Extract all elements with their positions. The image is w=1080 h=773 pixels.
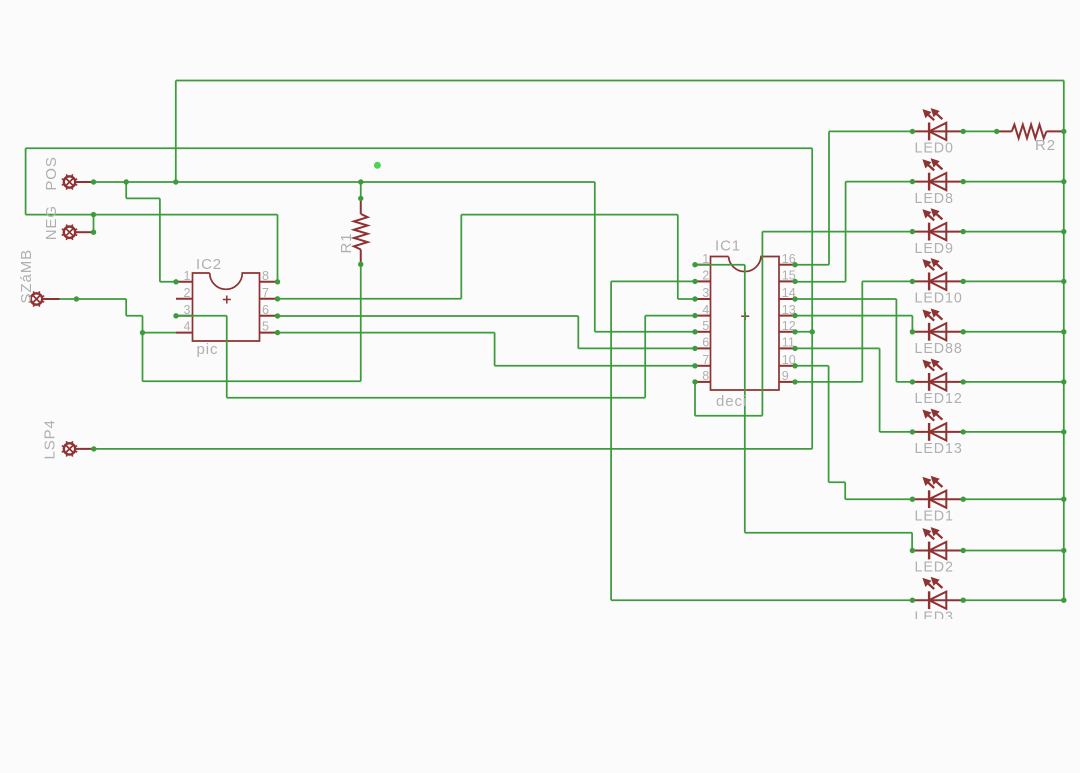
wire wire LED3 cathode to bus: [963, 599, 1064, 601]
svg-text:8: 8: [702, 369, 709, 383]
node LED8 anode: [910, 179, 915, 184]
wire net SZaMB jog: [126, 315, 142, 317]
wire wire IC1p10 drop: [828, 366, 830, 482]
wire wire LED10 cathode to bus: [963, 280, 1064, 282]
plus mark IC1: [741, 312, 749, 320]
wire wire drop to IC2 pin1: [159, 198, 161, 281]
LED LED3: [912, 578, 963, 610]
node LED2 cathode: [961, 548, 966, 553]
svg-text:7: 7: [262, 286, 269, 300]
svg-text:9: 9: [782, 369, 789, 383]
svg-text:LED13: LED13: [915, 441, 963, 457]
wire wire IC1p15 riser to LED8: [845, 182, 847, 282]
node LED3 anode: [910, 598, 915, 603]
svg-text:12: 12: [782, 319, 796, 333]
wire wire IC2 pin3 drop: [226, 316, 228, 398]
connector NEG pinhead: [62, 225, 91, 240]
wire wire from IC1 pin1: [695, 264, 745, 266]
wire wire LED13 cathode to bus: [963, 431, 1064, 433]
junction bus LED2: [1061, 548, 1066, 553]
pin stub IC1 right 3: [779, 298, 795, 300]
pin stub IC2 right 2: [260, 298, 278, 300]
connector SZaMB pinhead: [29, 291, 60, 306]
wire wire to IC2 pin4: [143, 332, 177, 334]
wire wire jog LED1 b: [844, 482, 846, 499]
wire wire IC1p13 drop to LED88: [911, 316, 913, 332]
node NEG at pinhead link: [91, 212, 96, 217]
wire net IC2p3-IC1p4 lower: [227, 397, 645, 399]
wire wire POS drop to IC1 pin5: [594, 182, 596, 332]
node LED9 anode: [910, 229, 915, 234]
LED LED0: [912, 109, 963, 141]
node IC2 pin 7: [275, 296, 280, 301]
wire net NEG main: [26, 214, 278, 216]
wire wire from IC1 pin14: [795, 298, 896, 300]
svg-text:1: 1: [183, 269, 190, 283]
junction bus LED9: [1061, 229, 1066, 234]
connector LSP4 pinhead: [62, 441, 92, 456]
pin stub IC1 left 5: [695, 331, 711, 333]
wire wire to IC1 pin5: [595, 331, 695, 333]
svg-text:3: 3: [183, 303, 190, 317]
resistor R1: [354, 198, 368, 264]
node IC2 pin 8: [275, 279, 280, 284]
node IC1 pin 16: [792, 262, 797, 267]
op-amp body IC1: [711, 257, 780, 391]
node LED10 cathode: [961, 279, 966, 284]
pin stub IC1 left 8: [695, 381, 711, 383]
node POS at R1: [358, 179, 363, 184]
wire wire NEG to IC2 pin8: [277, 215, 279, 282]
wire wire to LED9 anode: [762, 231, 912, 233]
LED LED13: [912, 409, 963, 441]
wire wire to IC1 pin6: [578, 347, 695, 349]
wire wire POS to R1 top: [360, 182, 362, 198]
pin stub IC1 right 7: [779, 365, 795, 367]
svg-text:LSP4: LSP4: [42, 419, 59, 459]
wire wire IC1p1 drop to LED2: [744, 265, 746, 533]
wire net POS jog to IC2 pin1: [126, 197, 160, 199]
wire wire jog LED1 a: [829, 481, 846, 483]
LED LED88: [912, 309, 963, 341]
junction bus LED13: [1061, 429, 1066, 434]
pin stub IC2 left 1: [176, 281, 193, 283]
svg-text:1: 1: [702, 252, 709, 266]
wire net POS main: [94, 181, 595, 183]
pin stub IC1 left 2: [695, 280, 711, 282]
wire wire SZaMB drop c: [142, 333, 144, 382]
wire wire SZaMB drop a: [125, 299, 127, 316]
pin stub IC1 right 6: [779, 347, 795, 349]
node NEG pinhead: [91, 230, 96, 235]
node LED13 anode: [910, 429, 915, 434]
junction bus LED8: [1061, 179, 1066, 184]
svg-text:8: 8: [262, 269, 269, 283]
node IC1 pin 5: [692, 329, 697, 334]
svg-text:SZáMB: SZáMB: [18, 249, 35, 304]
node LED3 cathode: [961, 598, 966, 603]
node LED2 anode: [910, 548, 915, 553]
wire wire from IC1 pin15: [795, 281, 846, 283]
wire wire to LED13 anode: [880, 431, 913, 433]
svg-text:15: 15: [782, 269, 796, 283]
wire wire POS jog drop: [125, 182, 127, 198]
node LED9 cathode: [961, 229, 966, 234]
svg-text:LED3: LED3: [915, 609, 954, 625]
svg-text:LED10: LED10: [915, 291, 963, 307]
LED LED1: [912, 477, 963, 509]
pin stub IC1 left 3: [695, 298, 711, 300]
node LED0 anode: [910, 129, 915, 134]
node IC1 pin 15: [792, 279, 797, 284]
wire wire LED8 cathode to bus: [963, 181, 1064, 183]
pin stub IC2 right 4: [260, 332, 278, 334]
wire wire SZaMB drop b: [142, 316, 144, 333]
node R2 pin 1: [994, 129, 999, 134]
svg-text:6: 6: [702, 336, 709, 350]
wire net SZaMB from pinhead: [60, 298, 127, 300]
wire wire IC1 pin8 drop: [694, 382, 696, 416]
node POS top-rail junction: [173, 179, 178, 184]
junction bus LED10: [1061, 279, 1066, 284]
svg-text:16: 16: [782, 252, 796, 266]
node LSP4 pinhead: [91, 446, 96, 451]
wire wire from IC1 pin13: [795, 315, 912, 317]
wire wire IC1p14 drop to LED12: [895, 299, 897, 382]
node LED13 cathode: [961, 429, 966, 434]
pin stub IC2 right 1: [260, 281, 278, 283]
pin stub IC1 right 2: [779, 280, 795, 282]
wire wire from IC2 pin5: [278, 332, 495, 334]
wire wire to IC1 pin2: [611, 280, 695, 282]
svg-text:13: 13: [782, 303, 796, 317]
wire wire IC1p11 drop to LED13: [879, 348, 881, 432]
svg-text:7: 7: [702, 353, 709, 367]
node IC1 pin 7: [692, 363, 697, 368]
svg-text:6: 6: [262, 303, 269, 317]
junction bus LED3: [1061, 598, 1066, 603]
wire wire IC2p5 drop: [494, 333, 496, 366]
wire wire IC1p9 riser to LED10: [861, 281, 863, 382]
svg-text:NEG: NEG: [43, 205, 60, 240]
pin stub IC2 left 2: [176, 298, 193, 300]
svg-text:4: 4: [702, 303, 709, 317]
wire wire to IC2 pin1: [160, 281, 176, 283]
svg-text:10: 10: [782, 353, 796, 367]
pin stub IC2 left 3: [176, 315, 193, 317]
node IC1 pin 8: [692, 379, 697, 384]
svg-text:LED88: LED88: [915, 341, 963, 357]
wire wire from IC1 pin8: [695, 415, 762, 417]
pin stub IC1 right 1: [779, 264, 795, 266]
node LED88 anode: [910, 329, 915, 334]
resistor R2: [997, 125, 1064, 139]
svg-text:LED8: LED8: [915, 191, 954, 207]
wire wire LED1 cathode to bus: [963, 498, 1064, 500]
node R2 pin 2 bus junction: [1061, 129, 1066, 134]
svg-text:IC2: IC2: [196, 256, 222, 273]
wire wire to LED12 anode: [896, 381, 912, 383]
node IC1 pin 12: [792, 329, 797, 334]
wire wire from IC1 pin12: [795, 331, 812, 333]
node LED88 cathode: [961, 329, 966, 334]
wire net IC1p2 to LED3 lower: [611, 599, 912, 601]
svg-text:LED0: LED0: [915, 141, 954, 157]
node IC2 pin 3: [173, 313, 178, 318]
wire wire from IC1 pin11: [795, 347, 880, 349]
wire wire IC2p7 riser: [460, 215, 462, 299]
wire wire to IC1 pin7: [495, 365, 695, 367]
node R1 pin 1: [358, 196, 363, 201]
plus mark IC2: [223, 296, 231, 304]
node IC1 pin 9: [792, 379, 797, 384]
svg-text:3: 3: [702, 286, 709, 300]
svg-text:R1: R1: [338, 233, 355, 254]
svg-text:14: 14: [782, 286, 796, 300]
svg-text:LED1: LED1: [915, 508, 954, 524]
wire wire LED0 cathode to R2: [963, 130, 997, 132]
wire net LSP4 main: [94, 448, 812, 450]
node IC1 pin 2: [692, 279, 697, 284]
svg-text:2: 2: [702, 269, 709, 283]
wire wire NEG pinhead link: [93, 215, 95, 233]
node IC1 pin 4: [692, 313, 697, 318]
wire wire IC1p16 riser to LED0: [828, 131, 830, 264]
wire wire from IC2 pin3: [176, 315, 227, 317]
node SZaMB branch: [140, 330, 145, 335]
wire net IC2p7-IC1p3 upper: [461, 214, 678, 216]
svg-text:R2: R2: [1035, 137, 1056, 154]
svg-text:4: 4: [183, 320, 190, 334]
wire wire to LED1 anode: [845, 498, 912, 500]
junction bus LED12: [1061, 379, 1066, 384]
svg-text:2: 2: [183, 286, 190, 300]
wire wire LED88 cathode to bus: [963, 331, 1064, 333]
pin stub IC1 right 5: [779, 331, 795, 333]
node IC1 pin 3: [692, 296, 697, 301]
wire wire from IC1 pin10: [795, 365, 829, 367]
node LED10 anode: [910, 279, 915, 284]
node POS jog: [124, 179, 129, 184]
label LED3 (clipped): [915, 609, 954, 625]
node POS at pinhead: [91, 179, 96, 184]
node IC1 pin 11: [792, 346, 797, 351]
wire wire from IC1 pin9: [795, 381, 862, 383]
node LED12 cathode: [961, 379, 966, 384]
wire net IC1p1 to LED2 lower: [745, 532, 912, 534]
pin stub IC1 left 7: [695, 365, 711, 367]
wire wire R1 bottom link: [360, 264, 362, 381]
node IC1 pin 13: [792, 313, 797, 318]
wire wire IC1p4 riser: [644, 316, 646, 398]
pin stub IC1 right 4: [779, 315, 795, 317]
wire wire to IC1 pin4: [645, 315, 695, 317]
svg-text:IC1: IC1: [715, 238, 741, 255]
wire wire LED2 anode drop: [911, 533, 913, 551]
wire wire IC1p2 drop to LED3: [610, 281, 612, 600]
node LED0 cathode: [961, 129, 966, 134]
LED LED2: [912, 528, 963, 560]
wire wire POS to top rail: [175, 81, 177, 183]
node IC1 pin 10: [792, 363, 797, 368]
node IC2 pin 5: [275, 330, 280, 335]
svg-text:POS: POS: [43, 156, 60, 190]
LED LED9: [912, 209, 963, 241]
svg-text:LED2: LED2: [915, 560, 954, 576]
wire net SZaMB to R1 bottom: [143, 380, 361, 382]
pin stub IC1 left 4: [695, 315, 711, 317]
LED LED10: [912, 259, 963, 291]
wire wire to LED8 anode: [846, 181, 913, 183]
node SZaMB at pinhead: [74, 296, 79, 301]
node IC1 pin 1: [692, 262, 697, 267]
wire net POS top rail: [176, 80, 1064, 82]
wire wire to IC1 pin3: [678, 298, 695, 300]
pin stub IC1 right 8: [779, 381, 795, 383]
wire wire from IC2 pin6: [278, 315, 579, 317]
pin stub IC1 left 6: [695, 347, 711, 349]
node LED8 cathode: [961, 179, 966, 184]
svg-text:pic: pic: [197, 341, 219, 358]
wire wire NEG left drop: [25, 148, 27, 214]
connector POS pinhead: [62, 174, 91, 189]
junction IC1 pin12 to riser: [810, 329, 815, 334]
wire net NEG upper rail: [26, 147, 813, 149]
wire wire to LED10 anode: [862, 280, 912, 282]
wire wire LED9 drop to IC1p8: [761, 232, 763, 416]
wire wire IC2p6 drop: [577, 316, 579, 348]
node LED12 anode: [910, 379, 915, 384]
wire wire IC1p3 riser: [677, 215, 679, 299]
node LED1 anode: [910, 497, 915, 502]
junction bus LED1: [1061, 497, 1066, 502]
node IC2 pin 1: [173, 279, 178, 284]
wire wire to LED0 anode: [829, 130, 912, 132]
op-amp body IC2: [193, 273, 260, 341]
svg-text:deci: deci: [716, 393, 747, 410]
bright green cursor dot: [374, 162, 381, 169]
node LED1 cathode: [961, 497, 966, 502]
wire wire LED9 cathode to bus: [963, 231, 1064, 233]
svg-text:11: 11: [782, 336, 795, 350]
svg-text:LED12: LED12: [915, 391, 963, 407]
wire wire NEG-LSP4 riser: [811, 148, 813, 449]
wire wire LED2 cathode to bus: [963, 550, 1064, 552]
wire wire from IC2 pin7: [278, 298, 462, 300]
LED LED8: [912, 159, 963, 191]
node IC2 pin 6: [275, 313, 280, 318]
LED LED12: [912, 359, 963, 391]
wire wire right cathode bus: [1063, 81, 1065, 601]
node R1 pin 2: [358, 262, 363, 267]
wire wire LED12 cathode to bus: [963, 381, 1064, 383]
pin stub IC2 left 4: [176, 332, 193, 334]
pin stub IC2 right 3: [260, 315, 278, 317]
wire wire from IC1 pin16: [795, 264, 829, 266]
svg-text:5: 5: [262, 320, 269, 334]
svg-text:LED9: LED9: [915, 241, 954, 257]
pin stub IC1 left 1: [695, 264, 711, 266]
node IC1 pin 6: [692, 346, 697, 351]
svg-text:5: 5: [702, 319, 709, 333]
junction bus LED88: [1061, 329, 1066, 334]
node IC1 pin 14: [792, 296, 797, 301]
